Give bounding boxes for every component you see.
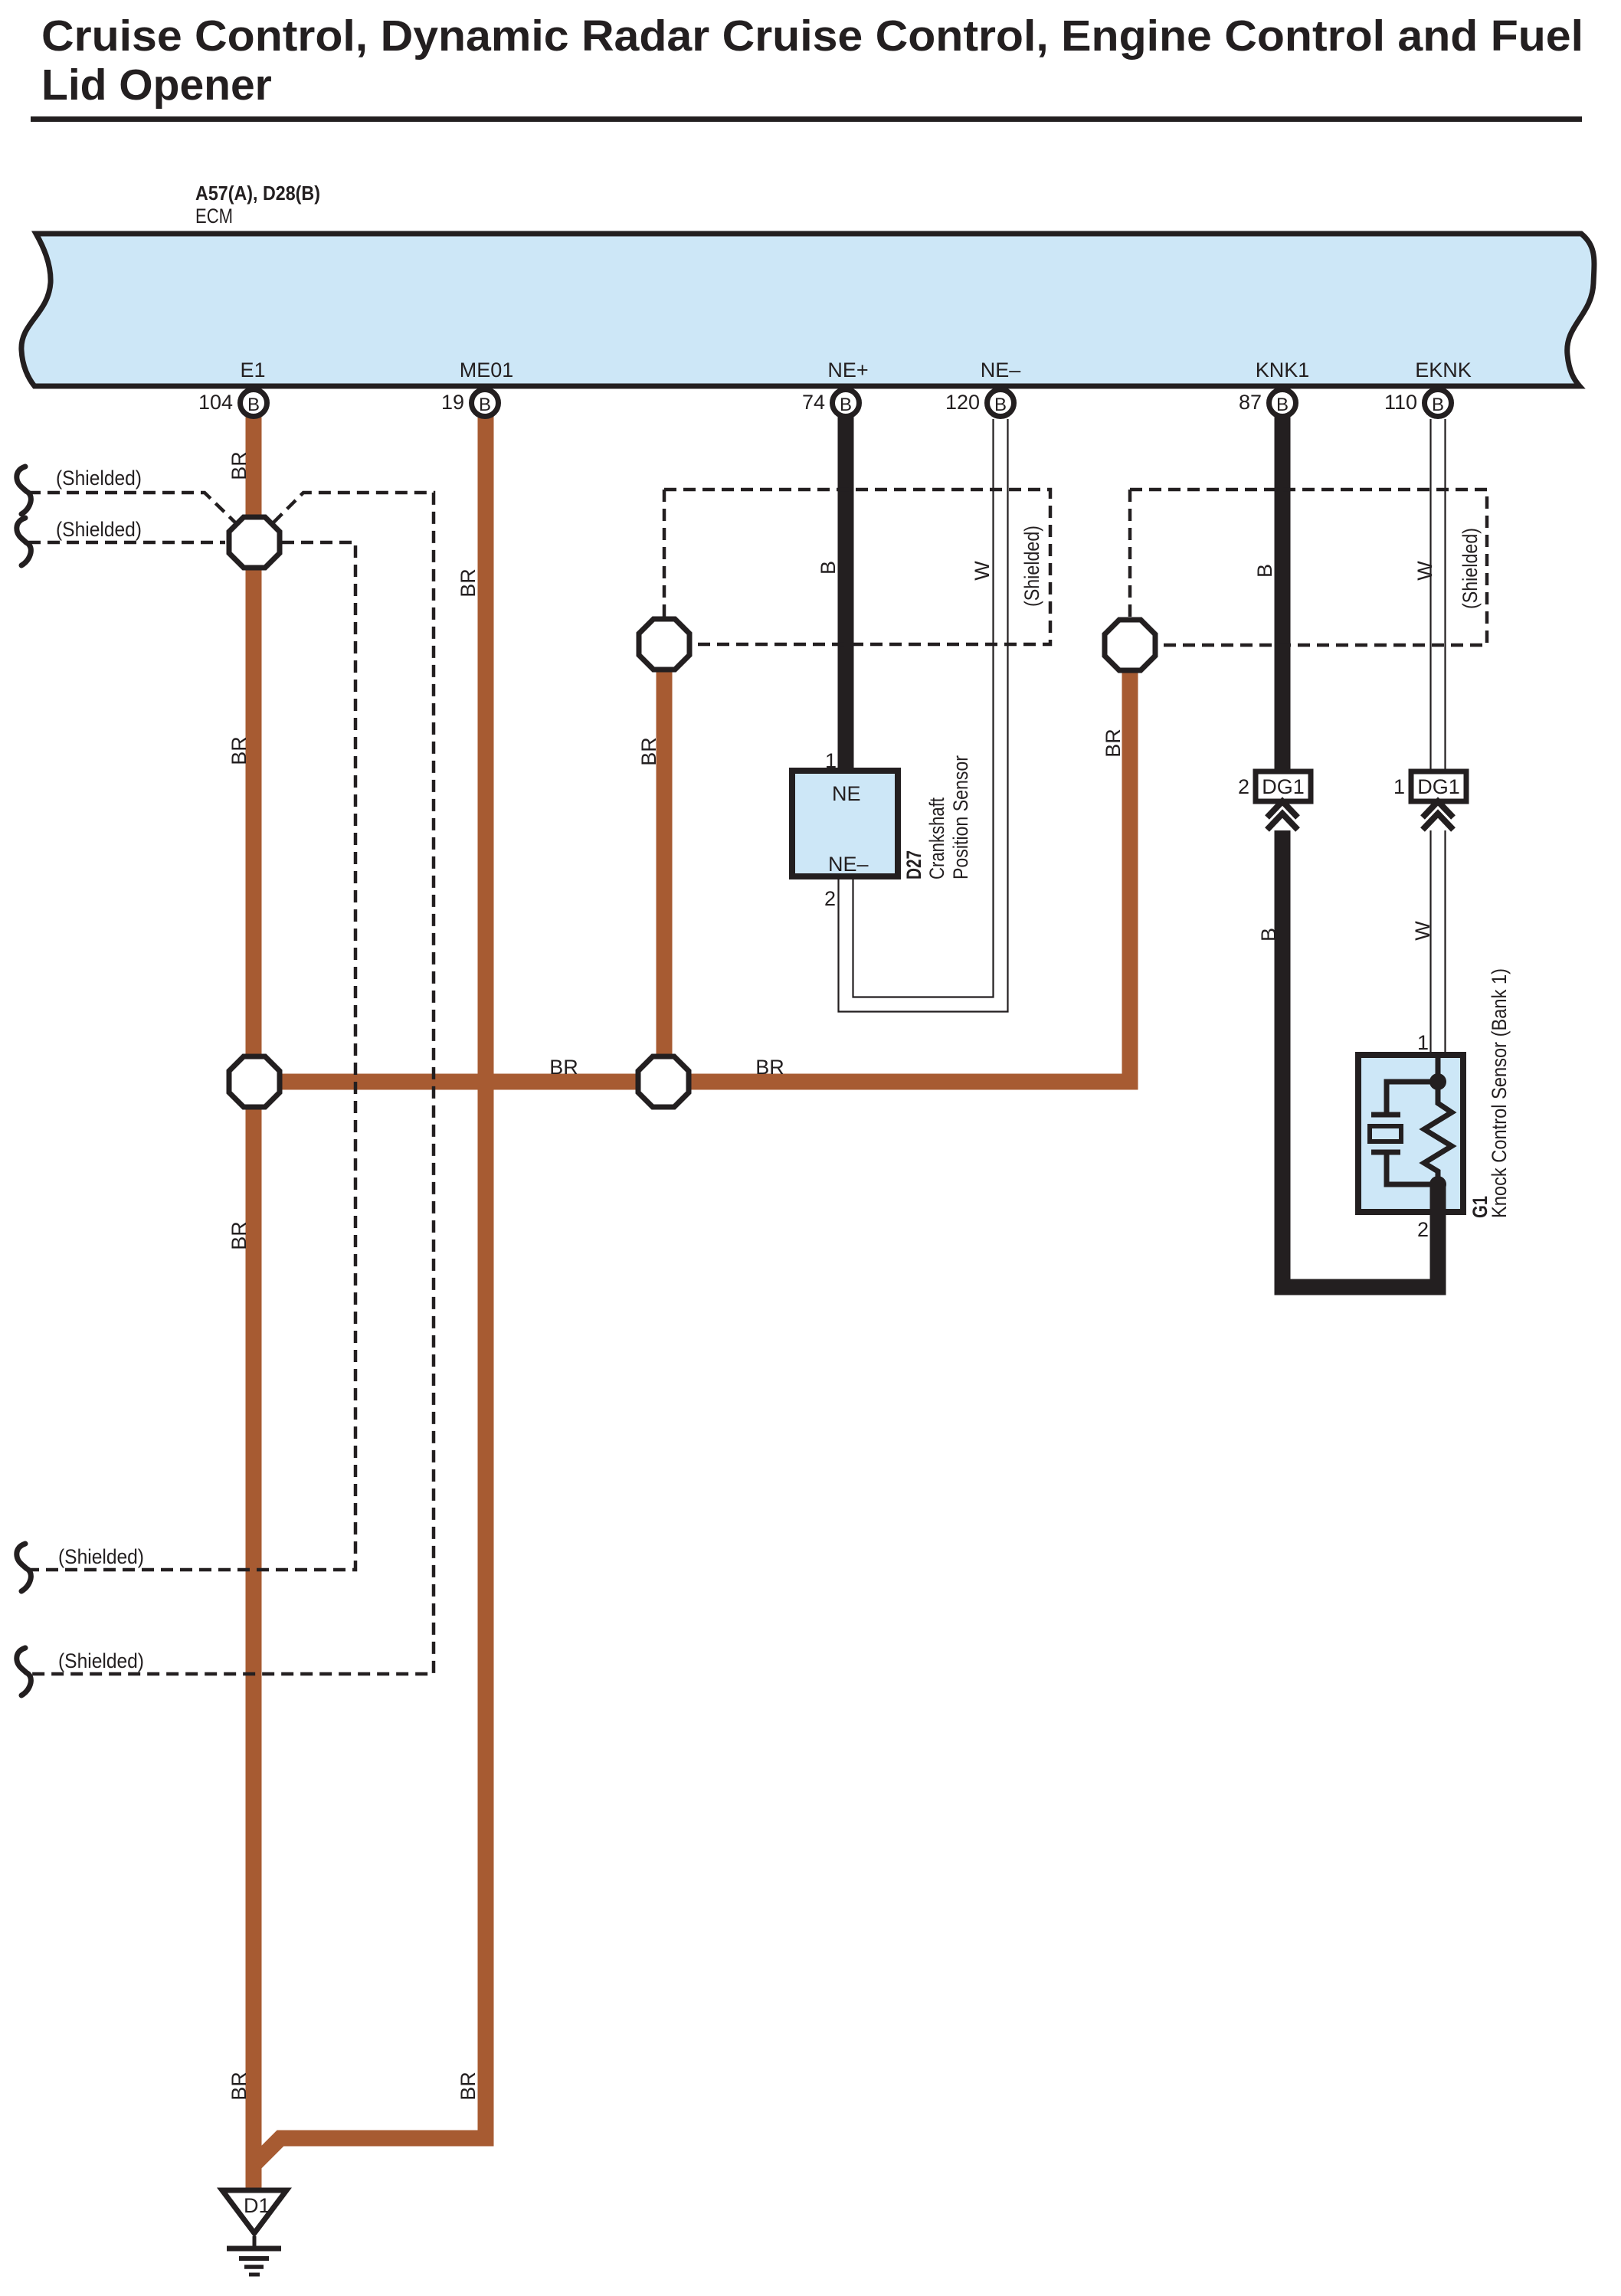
svg-text:1: 1 (1417, 1031, 1429, 1054)
svg-text:2: 2 (1238, 775, 1249, 798)
svg-text:B: B (479, 395, 491, 415)
brace for third shielded lead (17, 1544, 31, 1591)
svg-text:ME01: ME01 (460, 359, 514, 382)
ECM pin circle NE+ 74(B) (802, 390, 860, 417)
shield dashed box around NE+/NE- wires (664, 490, 1050, 644)
wire W (white) from EKNK pin 110 to DG1 connector (1431, 419, 1446, 771)
ECM block band (21, 234, 1594, 386)
ground symbol D1 (222, 2190, 287, 2275)
svg-text:1: 1 (825, 749, 837, 772)
splice octagon below NE shield box (639, 619, 689, 670)
shield dashed line from E1 octagon right, down to third brace (28, 542, 355, 1570)
G1 piezo element leads (1387, 1082, 1438, 1115)
svg-text:B: B (247, 395, 260, 415)
svg-text:NE: NE (832, 782, 861, 805)
svg-text:DG1: DG1 (1417, 775, 1460, 798)
crankshaft position sensor D27 box (792, 771, 898, 876)
wire BR horizontal bus with riser to KNK shield octagon (254, 665, 1130, 1082)
splice octagon on E1 wire (shield junction) (229, 517, 280, 568)
svg-text:Position Sensor: Position Sensor (949, 755, 972, 879)
G1 piezo crystal rectangle (1370, 1126, 1401, 1141)
svg-text:(Shielded): (Shielded) (58, 1545, 144, 1568)
svg-text:(Shielded): (Shielded) (56, 467, 142, 490)
splice octagon below KNK shield box (1105, 620, 1155, 670)
svg-text:BR: BR (228, 2072, 251, 2101)
svg-text:87: 87 (1239, 391, 1262, 414)
svg-text:BR: BR (457, 2072, 480, 2101)
svg-text:Crankshaft: Crankshaft (925, 798, 948, 879)
svg-text:Cruise Control, Dynamic Radar: Cruise Control, Dynamic Radar Cruise Con… (41, 11, 1583, 61)
svg-text:(Shielded): (Shielded) (56, 518, 142, 541)
wire W (white) from NE- pin 120 down, left, up to crankshaft sensor pin 2 (839, 419, 1008, 1012)
svg-text:BR: BR (228, 1221, 251, 1250)
svg-text:B: B (994, 395, 1007, 415)
ECM pin circle ME01 19(B) (441, 390, 499, 417)
ECM pin circle NE- 120(B) (945, 390, 1014, 417)
svg-text:104: 104 (198, 391, 233, 414)
svg-text:ECM: ECM (195, 205, 233, 228)
wire W (white) from DG1 connector down to knock sensor G1 pin 1 (1431, 830, 1446, 1055)
svg-text:B: B (840, 395, 852, 415)
svg-text:W: W (1411, 921, 1434, 941)
svg-text:110: 110 (1384, 391, 1417, 414)
svg-text:A57(A), D28(B): A57(A), D28(B) (195, 182, 320, 205)
svg-text:2: 2 (824, 887, 836, 910)
svg-text:1: 1 (1393, 775, 1405, 798)
svg-text:BR: BR (228, 736, 251, 765)
svg-text:Lid Opener: Lid Opener (41, 61, 272, 110)
brace for fourth shielded lead (17, 1648, 31, 1695)
svg-text:BR: BR (457, 568, 480, 598)
svg-text:B: B (1257, 928, 1280, 942)
svg-text:B: B (817, 561, 840, 575)
chevron arrows below DG1 (KNK1) (1267, 801, 1298, 830)
svg-text:W: W (1413, 561, 1436, 581)
svg-text:74: 74 (802, 391, 825, 414)
ECM pin circle KNK1 87(B) (1239, 390, 1296, 417)
wire B (black) from NE+ pin 74 to crankshaft sensor pin 1 (838, 416, 854, 774)
wire BR from ME01 pin 19 down, joining E1 wire near bottom (255, 416, 486, 2163)
svg-text:2: 2 (1417, 1218, 1429, 1241)
svg-text:BR: BR (1102, 729, 1125, 758)
wire BR from E1 pin 104 down to ground D1 (246, 416, 262, 2188)
svg-text:Knock Control Sensor (Bank 1): Knock Control Sensor (Bank 1) (1488, 968, 1511, 1218)
chevron arrows below DG1 (EKNK) (1423, 801, 1453, 830)
G1 internal wire from pin 1 (1436, 1055, 1441, 1082)
svg-text:B: B (1253, 564, 1276, 578)
svg-text:(Shielded): (Shielded) (1020, 526, 1043, 607)
svg-text:(Shielded): (Shielded) (1459, 528, 1482, 609)
brace for second shielded lead (17, 518, 31, 565)
DG1 connector (EKNK wire) (1393, 771, 1466, 801)
shield dashed box around KNK1/EKNK wires (1130, 490, 1487, 645)
svg-text:19: 19 (441, 391, 464, 414)
DG1 connector (KNK1 wire) (1238, 771, 1311, 801)
G1 piezo plates (1371, 1112, 1400, 1118)
svg-text:KNK1: KNK1 (1256, 359, 1310, 382)
svg-text:E1: E1 (240, 359, 265, 382)
svg-text:120: 120 (945, 391, 980, 414)
G1 internal junction dot bottom (1429, 1176, 1446, 1193)
wire BR riser from NE shield octagon to bus (657, 651, 673, 1082)
svg-text:NE–: NE– (981, 359, 1021, 382)
wire B (black) from KNK1 pin 87 to DG1 connector (1275, 416, 1291, 774)
svg-text:BR: BR (549, 1056, 578, 1079)
svg-text:BR: BR (755, 1056, 784, 1079)
ECM pin circle EKNK 110(B) (1384, 390, 1452, 417)
svg-text:NE+: NE+ (827, 359, 868, 382)
svg-text:BR: BR (637, 737, 660, 766)
splice octagon on ground bus below NE riser (638, 1056, 689, 1107)
ECM pin circle E1 104(B) (198, 390, 267, 417)
svg-text:NE–: NE– (828, 853, 869, 876)
G1 pin 2 stub (1430, 1184, 1446, 1210)
shield dashed line from top brace into E1 splice octagon (28, 493, 235, 522)
G1 internal resistor (1424, 1082, 1452, 1184)
brace for first shielded lead (17, 467, 31, 514)
svg-text:D27: D27 (902, 850, 925, 879)
splice octagon on E1 wire at ground bus (229, 1056, 280, 1107)
wire B (black) from DG1 down, across and up to knock sensor G1 pin 2 (1282, 830, 1438, 1287)
knock control sensor G1 box (1358, 1055, 1463, 1212)
svg-text:EKNK: EKNK (1415, 359, 1472, 382)
shield dashed line from E1 octagon top right, down to fourth brace (28, 493, 434, 1674)
shield dashed line from second brace into E1 splice octagon (28, 541, 225, 545)
svg-text:B: B (1276, 395, 1289, 415)
G1 internal junction dot top (1429, 1073, 1446, 1090)
svg-text:W: W (971, 561, 994, 581)
svg-text:B: B (1432, 395, 1444, 415)
svg-text:(Shielded): (Shielded) (58, 1649, 144, 1672)
svg-text:D1: D1 (244, 2194, 270, 2217)
svg-text:DG1: DG1 (1262, 775, 1305, 798)
svg-text:BR: BR (228, 451, 251, 480)
title (31, 11, 1583, 122)
